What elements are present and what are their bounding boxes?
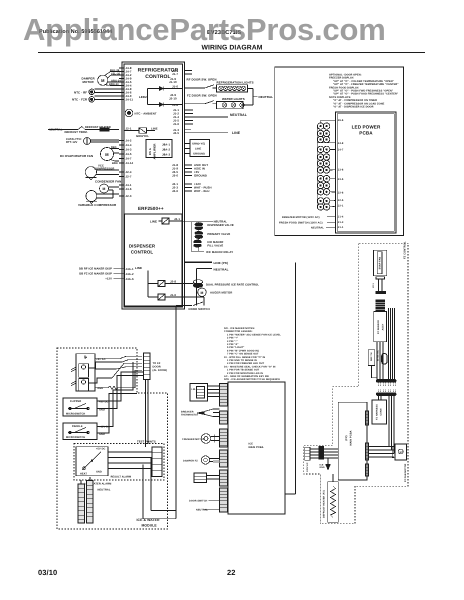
svg-text:M: M [105, 152, 109, 157]
door switch circuit [176, 297, 204, 306]
svg-text:ICE: ICE [320, 464, 324, 467]
svg-text:NEUTRAL: NEUTRAL [98, 489, 111, 492]
svg-text:FZ SENSOR: FZ SENSOR [377, 320, 380, 334]
svg-text:J2-1: J2-1 [174, 217, 180, 221]
test points dashed box [74, 444, 164, 481]
svg-text:FLIPPER: FLIPPER [70, 400, 81, 403]
door switch bottom wire [209, 499, 220, 501]
FZ pcba right edge connectors [366, 411, 369, 476]
svg-text:DAMPER FZ: DAMPER FZ [183, 460, 198, 463]
svg-text:GRN/YEL: GRN/YEL [136, 134, 149, 138]
svg-text:GND: GND [99, 409, 105, 412]
VCC compressor label [94, 165, 114, 171]
svg-text:J4-7: J4-7 [126, 157, 132, 161]
svg-text:FZ DOOR SW. OPEN: FZ DOOR SW. OPEN [187, 93, 217, 97]
svg-text:GND: GND [320, 466, 325, 469]
svg-text:LINE: LINE [135, 266, 142, 270]
wire to FZ door switch [185, 103, 206, 105]
svg-text:J4-5: J4-5 [126, 152, 132, 156]
svg-text:J2-1: J2-1 [338, 205, 344, 208]
svg-text:J4-4: J4-4 [126, 143, 132, 147]
paddle wires [97, 362, 137, 433]
thermostat wire [372, 366, 378, 380]
svg-text:DC EVAPORATOR FAN: DC EVAPORATOR FAN [60, 154, 93, 158]
right pins ASIC group [185, 165, 193, 176]
refrigeration lights box with 6 lamps [217, 85, 248, 92]
PCBA left pin labels [338, 119, 344, 229]
LED D3 dual lamp [317, 136, 329, 142]
heater feed wire [332, 474, 334, 482]
dispenser lower line circuit [135, 266, 182, 300]
svg-text:J4A-2: J4A-2 [126, 272, 134, 276]
LED D4 dual lamp [317, 146, 329, 152]
svg-text:ASSY: ASSY [382, 323, 385, 330]
svg-text:DB FZ ICE MAKER DISP: DB FZ ICE MAKER DISP [79, 273, 112, 276]
ribbon connector stack [376, 300, 385, 311]
freezer section dashed boundary [304, 243, 408, 524]
left pin ticks top group [119, 68, 125, 100]
flipper labels [66, 400, 109, 416]
svg-text:DISPENSER: DISPENSER [129, 244, 156, 249]
LED section notes text [329, 74, 399, 109]
svg-text:M: M [103, 187, 106, 191]
svg-text:GND: GND [99, 433, 105, 436]
lights neutral return wire [243, 88, 258, 105]
neutral bus to auger [197, 269, 213, 306]
svg-text:J8A-2: J8A-2 [162, 148, 170, 152]
svg-text:NTC - FZR: NTC - FZR [72, 98, 88, 102]
LED D6 dual lamp [317, 160, 329, 166]
svg-text:MAIN PCBA: MAIN PCBA [350, 430, 353, 445]
svg-text:VARIABLE COMPRESSOR: VARIABLE COMPRESSOR [78, 203, 117, 207]
GRN/YEL label [126, 126, 158, 138]
wire switch to water lights [213, 103, 217, 105]
svg-text:DB RF ICE MAKER DISP: DB RF ICE MAKER DISP [79, 268, 112, 271]
LED D8 dual lamp [317, 175, 329, 181]
LED power PCBA title [352, 125, 381, 136]
test area drop wires [143, 457, 176, 519]
svg-text:MICROSWITCH: MICROSWITCH [66, 436, 85, 439]
svg-text:J2-8: J2-8 [170, 279, 176, 283]
svg-text:WATER LIGHTS: WATER LIGHTS [222, 97, 245, 101]
svg-text:GROUND: GROUND [193, 153, 205, 156]
LED2 right pin labels [169, 69, 178, 107]
svg-text:J1-7: J1-7 [172, 72, 178, 76]
damper motor wires [105, 72, 120, 86]
svg-text:ICE & WATER: ICE & WATER [137, 518, 161, 522]
right pins 12V group [185, 184, 193, 191]
svg-text:CONDENSER FAN: CONDENSER FAN [95, 180, 121, 184]
svg-text:J1-6: J1-6 [170, 293, 176, 297]
svg-text:GND: GND [96, 471, 102, 474]
dispenser control box [125, 214, 183, 306]
svg-text:CRUSHER MOTOR: CRUSHER MOTOR [182, 438, 205, 441]
variable compressor [86, 191, 119, 204]
right pins LINE group [185, 130, 229, 133]
head switch wires to connector [89, 356, 142, 389]
LED power PCBA box double border [336, 112, 397, 233]
test module inner box [76, 447, 108, 476]
door switch neutral drop wire [175, 306, 177, 519]
chassis ground arrow [326, 458, 330, 470]
svg-text:PADDLE: PADDLE [72, 425, 83, 428]
sensor drop wires [377, 342, 383, 380]
FZ main pcba box [338, 402, 367, 480]
svg-text:J2-4: J2-4 [126, 170, 132, 174]
evap fan wire labels [111, 146, 118, 165]
ES A amplifier inner box [146, 140, 172, 160]
dispenser valve solenoid [195, 223, 203, 230]
svg-text:M: M [101, 78, 105, 83]
SECTION:HEADER [39, 29, 263, 52]
damper motor label [82, 77, 96, 85]
freezer sensor box [374, 312, 387, 342]
pcba connector group 6 [220, 488, 228, 512]
svg-text:GROUND: GROUND [194, 174, 207, 178]
svg-text:J4-3: J4-3 [126, 148, 132, 152]
FZ hatched connector [319, 446, 324, 459]
svg-text:J4-14: J4-14 [126, 161, 134, 165]
svg-text:J4-8: J4-8 [338, 142, 344, 145]
svg-text:DEFROST HEATER (FZ): DEFROST HEATER (FZ) [323, 490, 326, 518]
wires FZ pcba to fan motor [369, 447, 395, 458]
svg-text:PCBA: PCBA [359, 131, 373, 136]
svg-text:FRESH FOOD SWITCH (120V AC): FRESH FOOD SWITCH (120V AC) [279, 221, 323, 224]
svg-text:FREEZER MOTOR (120V AC): FREEZER MOTOR (120V AC) [282, 216, 320, 219]
valve feed bus [182, 222, 213, 251]
svg-text:LINE: LINE [195, 148, 201, 151]
svg-text:03/10: 03/10 [38, 568, 57, 577]
svg-text:NEUTRAL: NEUTRAL [259, 95, 274, 99]
neutral bottom wire [204, 508, 220, 510]
pcba connector group 1 [220, 384, 228, 407]
svg-text:CONTROL: CONTROL [131, 250, 154, 255]
svg-text:BRN: BRN [112, 162, 118, 165]
svg-text:J4-2: J4-2 [126, 139, 132, 143]
svg-text:NTC - RF: NTC - RF [74, 90, 87, 94]
svg-text:LED2: LED2 [139, 95, 147, 99]
svg-text:ES A: ES A [148, 148, 152, 155]
svg-text:DOOR SWITCH: DOOR SWITCH [189, 500, 208, 503]
ground wiring box GRN YEL LINE GROUND [185, 140, 210, 157]
RF door switch [205, 85, 214, 88]
head switch hash marks [71, 368, 76, 386]
wire to RF door switch [185, 87, 206, 89]
svg-text:J4A-6: J4A-6 [126, 277, 134, 281]
catalyst label [66, 138, 81, 144]
wires bar2 to lower area [379, 396, 395, 454]
bottom connector strip 2 [87, 481, 94, 524]
svg-text:LINE (PK): LINE (PK) [214, 261, 229, 265]
connector riser wires [81, 477, 90, 484]
ice and water module dashed boundary [57, 348, 168, 529]
svg-text:J8A-1: J8A-1 [162, 143, 170, 147]
flipper wires [97, 372, 144, 409]
svg-text:J8A-3: J8A-3 [162, 153, 170, 157]
svg-text:REFRIGERATION LIGHTS: REFRIGERATION LIGHTS [217, 80, 254, 84]
left pin group 3 [126, 170, 132, 198]
connector label [153, 362, 168, 372]
svg-text:MODULE: MODULE [142, 524, 158, 528]
bottom connector strip 1 [78, 484, 85, 523]
svg-text:J1-3: J1-3 [338, 221, 344, 224]
defrost heater FZ box [328, 482, 339, 523]
LED D12 dual lamp [317, 204, 329, 210]
auger motor [197, 288, 207, 296]
FZ feed wires [310, 449, 338, 458]
svg-text:+12V DC: +12V DC [99, 426, 110, 429]
svg-text:DEFROST TERM.: DEFROST TERM. [65, 131, 88, 134]
svg-text:MAIN PCBA: MAIN PCBA [249, 446, 264, 449]
ice maker connector wires [208, 386, 220, 397]
LED D10 dual lamp [317, 189, 329, 195]
LED D9 dual lamp [317, 182, 329, 188]
refrigerator control board outer double border [122, 62, 185, 309]
svg-text:J1-6: J1-6 [172, 85, 178, 89]
svg-text:RESULT ALARM: RESULT ALARM [111, 476, 132, 479]
svg-text:J1-4: J1-4 [338, 216, 344, 219]
dispenser input labels [79, 268, 112, 281]
svg-text:J2-8: J2-8 [338, 191, 344, 194]
left pin group 2 [126, 139, 134, 166]
freezer bus bar 2 [376, 390, 396, 396]
svg-text:NEUTRAL: NEUTRAL [230, 113, 247, 117]
svg-text:DISPENSER VALVE: DISPENSER VALVE [207, 224, 233, 227]
svg-text:J4-6: J4-6 [126, 187, 132, 191]
dual pressure ice rate control coil [182, 280, 203, 288]
svg-text:PRIMARY VALVE: PRIMARY VALVE [207, 233, 230, 236]
catalyst heater symbol [84, 138, 120, 145]
LED D2 dual lamp [317, 130, 329, 136]
svg-text:NEUTRAL: NEUTRAL [214, 267, 229, 271]
freezer bus bar 1 [376, 380, 396, 386]
DC evaporator fan motor [101, 148, 120, 162]
svg-text:J1-1: J1-1 [338, 226, 344, 229]
svg-text:120V AC: 120V AC [306, 462, 309, 472]
svg-text:ICE MAKER: ICE MAKER [207, 241, 223, 244]
svg-text:M: M [400, 451, 402, 454]
connector drop wires [146, 380, 149, 448]
damper fz motor [201, 456, 219, 464]
right section outer border [275, 67, 404, 236]
wires from 120V labels to pins [326, 217, 336, 227]
svg-text:GRN(+YE): GRN(+YE) [192, 143, 205, 146]
dispenser valve labels [207, 221, 233, 228]
dispenser line relay [150, 217, 182, 224]
icemaker notes text block [224, 327, 281, 381]
LED D7 dual lamp [317, 167, 329, 173]
pcba connector group 2 [220, 411, 228, 424]
svg-text:J2-1: J2-1 [126, 126, 132, 130]
freezer feed vertical wire [295, 263, 297, 495]
svg-text:NEUTRAL: NEUTRAL [214, 221, 228, 224]
module connector TO FZ DOOR [144, 353, 151, 380]
svg-text:J2-10: J2-10 [169, 97, 177, 101]
svg-text:ERF2500++: ERF2500++ [138, 206, 164, 211]
line PK thick wire [185, 261, 213, 263]
svg-text:+12V: +12V [105, 278, 112, 281]
dispenser head switch box [76, 354, 95, 391]
module name label [137, 518, 161, 528]
watermark AppliancePartsPros.com [23, 12, 453, 48]
water lights box with 3 lamps [217, 101, 245, 108]
svg-text:BI-METAL: BI-METAL [377, 349, 380, 361]
NTC FZR thermistor [89, 96, 119, 102]
pcba connector group 3 [220, 429, 228, 447]
svg-text:J2-6: J2-6 [172, 189, 178, 193]
svg-text:DOOR SWITCH: DOOR SWITCH [189, 307, 210, 311]
wires LED2 to right edge [166, 89, 182, 105]
paddle labels [66, 425, 110, 439]
damper wire color labels [109, 69, 121, 86]
svg-text:DUAL PRESSURE ICE RATE CONTROL: DUAL PRESSURE ICE RATE CONTROL [206, 283, 259, 286]
svg-text:J4-7: J4-7 [338, 149, 344, 152]
defrost heater labels [49, 126, 111, 134]
flipper microswitch box [63, 398, 97, 416]
svg-text:NTE - ICE AUGER MOTOR CYCLE SE: NTE - ICE AUGER MOTOR CYCLE SEQUENCE [224, 378, 280, 381]
svg-text:ICE MAKER RELAY: ICE MAKER RELAY [206, 250, 233, 254]
svg-text:J4-11: J4-11 [126, 98, 134, 102]
svg-text:J2-1: J2-1 [372, 283, 375, 288]
defrost thermostat box [368, 349, 379, 365]
svg-text:AUGER MOTOR: AUGER MOTOR [210, 291, 232, 295]
FZ left connector [305, 447, 310, 472]
breaker thermostat arrow [197, 409, 220, 417]
svg-text:FILL VALVE: FILL VALVE [207, 245, 223, 248]
svg-text:NEUTRAL: NEUTRAL [311, 226, 324, 229]
icemaker pcba label [249, 443, 264, 449]
svg-text:RED: RED [111, 146, 117, 149]
svg-text:LINE: LINE [150, 219, 157, 223]
right pins NEUTRAL group [185, 110, 229, 124]
svg-text:J2-7: J2-7 [126, 175, 132, 179]
ice maker head connector box [190, 384, 208, 402]
FZ fan motor box [392, 444, 406, 460]
svg-text:LED POWER: LED POWER [352, 125, 381, 130]
evaporator fan box [374, 250, 387, 276]
defrost heater wire with thermal cutout [48, 127, 119, 132]
svg-text:LINE: LINE [151, 127, 158, 131]
svg-text:AMPLIFIER: AMPLIFIER [153, 144, 157, 160]
svg-text:NEUTRAL: NEUTRAL [49, 129, 63, 132]
icemaker main pcba box [228, 382, 285, 514]
LED feed top wire [321, 120, 336, 123]
svg-text:RF DOOR SW. OPEN: RF DOOR SW. OPEN [187, 78, 217, 82]
svg-text:J3-5: J3-5 [338, 178, 344, 181]
condenser fan motor [100, 184, 120, 196]
svg-text:CONN: CONN [380, 408, 383, 415]
RFC RF thermistor [89, 89, 119, 95]
pcba to freezer feed stub [285, 493, 296, 495]
dispenser left pins [126, 267, 134, 281]
svg-text:J2-5: J2-5 [173, 131, 179, 135]
NTC ambient thermistor [125, 109, 133, 117]
crusher solenoid motor [201, 434, 219, 444]
dispenser left input wires [114, 269, 125, 279]
harness box [372, 400, 387, 424]
pcba connector group 5 [220, 470, 228, 486]
svg-text:(FZ): (FZ) [345, 435, 348, 440]
svg-text:J2-5: J2-5 [338, 199, 344, 202]
svg-text:22: 22 [227, 568, 236, 577]
svg-text:CONTROL: CONTROL [145, 74, 170, 80]
wire switch to refrigeration lights [213, 87, 217, 89]
SECTION:FOOTER [38, 568, 236, 577]
ground tiny label [320, 464, 325, 470]
dispenser control title [129, 244, 156, 255]
water valve block [194, 473, 220, 483]
svg-text:LINE: LINE [232, 131, 241, 135]
test module labels [80, 447, 131, 478]
svg-text:RTT-12V: RTT-12V [66, 141, 78, 144]
svg-text:J1-6: J1-6 [173, 122, 179, 126]
LED pin wires [317, 143, 335, 207]
FZ door switch [205, 101, 214, 104]
svg-text:J3-8: J3-8 [338, 169, 344, 172]
fan connector I-beam [372, 277, 386, 294]
refrigerator control title [138, 68, 179, 81]
svg-text:MOTOR: MOTOR [83, 80, 95, 84]
VCC compressor [85, 167, 119, 180]
LED chain wire [316, 126, 318, 207]
pcba connector group 4 [220, 450, 228, 467]
svg-text:FZ HARNESS: FZ HARNESS [376, 404, 379, 420]
relay GRN/YEL with pin J2-1 [125, 128, 156, 133]
svg-text:J2-3: J2-3 [126, 194, 132, 198]
ribbon drop wires [389, 308, 395, 380]
test points connector [152, 447, 162, 477]
left pin labels J4 group [126, 66, 134, 102]
breaker thermostat label [181, 411, 199, 417]
svg-text:HEAT: HEAT [80, 473, 87, 476]
svg-text:NTC - AMBIENT: NTC - AMBIENT [135, 111, 157, 115]
LED D11 dual lamp [317, 198, 329, 204]
LED D1 dual lamp [317, 123, 329, 129]
svg-text:J6-6: J6-6 [338, 119, 344, 122]
svg-text:I.M.: I.M. [192, 388, 197, 391]
svg-text:(AL DOOR): (AL DOOR) [153, 369, 168, 372]
svg-text:+5V DC: +5V DC [96, 447, 106, 450]
primary valve solenoid [195, 231, 203, 238]
LED D5 dual lamp [317, 154, 329, 160]
svg-text:BRN-33: BRN-33 [109, 83, 119, 86]
LED2 sub-circuit [148, 87, 167, 107]
svg-text:"O" AT - DISPENSER ICE DOOR: "O" AT - DISPENSER ICE DOOR [333, 106, 374, 109]
svg-text:WHT - BLU: WHT - BLU [194, 189, 210, 193]
svg-text:FZ CONTROL: FZ CONTROL [404, 241, 407, 259]
svg-text:DEF TH: DEF TH [370, 352, 373, 361]
svg-text:THERMOSTAT: THERMOSTAT [181, 414, 199, 417]
svg-text:TEST POINTS: TEST POINTS [137, 441, 156, 444]
header rule [38, 52, 425, 54]
svg-text:J3-6: J3-6 [172, 174, 178, 178]
svg-text:FZ FAN MOTOR: FZ FAN MOTOR [404, 463, 407, 482]
top right pin stubs [185, 71, 193, 75]
damper motor M1 [98, 75, 108, 85]
ice maker fill valve label [207, 241, 223, 248]
svg-text:J4A-1: J4A-1 [126, 267, 134, 271]
thermal fuse pill [382, 354, 387, 365]
ice maker fill valve solenoid [194, 240, 202, 247]
svg-text:EVAP FAN: EVAP FAN [379, 257, 382, 270]
paddle microswitch box [63, 423, 97, 440]
svg-text:MICROSWITCH: MICROSWITCH [66, 413, 85, 416]
test wiring [108, 452, 152, 469]
svg-text:M: M [201, 291, 204, 295]
